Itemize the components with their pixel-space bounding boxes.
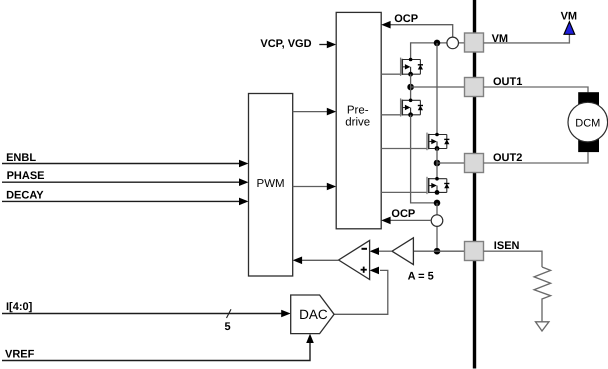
wire gain amp to comparator minus — [370, 247, 392, 255]
wire ISEN node to gain amp — [413, 250, 437, 252]
svg-text:DCM: DCM — [575, 117, 600, 129]
node junction ISEN — [434, 248, 441, 255]
wire ISEN pin to sense resistor — [484, 251, 543, 267]
motor DCM brushes — [578, 92, 599, 105]
svg-text:Pre-: Pre- — [347, 105, 369, 117]
transistor M4 (low-side OUT2) — [381, 177, 449, 195]
resistor Rsense — [534, 267, 551, 301]
wire PWM to Pre-drive upper — [293, 108, 337, 116]
wire M2 source down to common — [411, 115, 437, 203]
wire OUT1 node to pin — [411, 86, 465, 88]
wire OUT1 to motor — [484, 87, 589, 92]
wire resistor to ground — [541, 301, 543, 322]
pin VM — [465, 33, 484, 52]
wire VM pin to supply — [484, 34, 570, 43]
block PWM — [249, 94, 293, 277]
pin OUT1 — [465, 78, 484, 97]
svg-text:drive: drive — [345, 117, 370, 129]
wire M1 source to M2 drain — [410, 74, 412, 100]
node junction common source — [434, 200, 441, 207]
svg-text:OCP: OCP — [394, 13, 418, 25]
wire ISEN node to pin — [437, 250, 465, 252]
bus slash 5 — [225, 309, 232, 333]
wire VM node horizontal — [411, 42, 465, 44]
wire common source down to ISEN — [436, 203, 438, 251]
op-amp gain stage A=5 — [392, 238, 413, 265]
svg-text:PWM: PWM — [257, 178, 285, 190]
current sense circle bottom — [431, 215, 443, 227]
wire I[4:0] input line — [2, 310, 291, 318]
wire OUT2 to motor — [484, 152, 589, 163]
svg-text:ENBL: ENBL — [6, 152, 36, 164]
block DAC — [291, 295, 334, 334]
wire PWM to Pre-drive lower — [293, 183, 337, 191]
transistor M1 (high-side OUT1) — [381, 58, 423, 77]
power VM supply triangle — [564, 22, 575, 35]
svg-text:5: 5 — [225, 321, 231, 333]
wire VM junction down to M3 drain — [436, 43, 438, 135]
svg-text:DECAY: DECAY — [6, 189, 44, 201]
device boundary thick line — [473, 0, 476, 369]
wire DECAY input line — [2, 198, 249, 206]
pin OUT2 — [465, 154, 484, 173]
wire DAC output to comparator plus — [334, 267, 388, 315]
svg-text:VREF: VREF — [5, 349, 35, 361]
svg-text:I[4:0]: I[4:0] — [6, 301, 33, 313]
transistor M3 (high-side OUT2) — [381, 133, 449, 151]
wire M3 source to M4 drain — [436, 149, 438, 179]
motor DCM body — [568, 102, 608, 142]
node junction OUT2 — [434, 160, 441, 167]
svg-text:VCP, VGD: VCP, VGD — [260, 38, 311, 50]
wire comparator output to PWM — [293, 257, 339, 265]
wire VREF input line — [2, 334, 314, 361]
wire OUT2 node to pin — [437, 162, 465, 164]
svg-text:ISEN: ISEN — [494, 240, 520, 252]
node junction VM — [434, 40, 441, 47]
svg-text:VM: VM — [561, 10, 578, 22]
svg-text:OUT1: OUT1 — [493, 76, 522, 88]
svg-text:A = 5: A = 5 — [408, 270, 434, 282]
svg-text:PHASE: PHASE — [7, 170, 45, 182]
svg-text:OCP: OCP — [391, 208, 415, 220]
block Pre-drive — [336, 12, 381, 228]
wire VM to M1 drain — [410, 42, 412, 59]
svg-text:DAC: DAC — [299, 307, 328, 322]
wire ENBL input line — [2, 160, 249, 168]
pin ISEN — [465, 242, 484, 261]
wire VCP,VGD into Pre-drive — [319, 41, 336, 49]
svg-text:OUT2: OUT2 — [493, 152, 522, 164]
current sense circle top — [447, 37, 459, 49]
wire OCP top — [381, 21, 453, 37]
wire OCP bottom — [381, 217, 431, 225]
transistor M2 (low-side OUT1) — [381, 98, 423, 117]
wire PHASE input line — [2, 178, 249, 186]
op-amp comparator — [339, 240, 370, 279]
ground — [536, 322, 549, 331]
node junction OUT1 — [407, 84, 414, 91]
